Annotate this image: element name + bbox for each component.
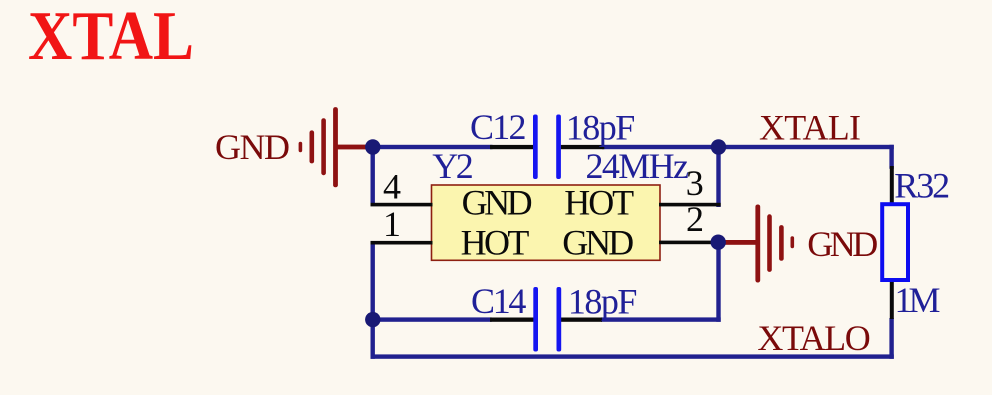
wire: C14 net, right segment	[601, 317, 721, 321]
pin 3 (HOT) wire	[659, 203, 721, 207]
svg-text:Y2: Y2	[432, 146, 474, 186]
junction dot at right top	[711, 139, 726, 154]
capacitor C12 pin stubs (black)	[490, 145, 534, 149]
resistor R32 bottom pin (black)	[890, 280, 894, 319]
resistor R32 body	[882, 204, 908, 280]
wire: vertical from left junction down to pin 4	[371, 147, 375, 206]
power ground symbol (right), net GND	[755, 205, 794, 283]
svg-text:XTALO: XTALO	[757, 318, 870, 358]
pin 2 (GND) wire	[659, 241, 721, 245]
svg-text:18pF: 18pF	[568, 281, 638, 321]
svg-text:18pF: 18pF	[566, 107, 636, 147]
resistor R32 top pin (black)	[890, 166, 894, 205]
capacitor C14 pin stubs (black)	[490, 318, 534, 322]
power ground symbol (left), net GND	[299, 107, 338, 187]
wire: C14 net, left segment	[373, 317, 492, 321]
junction dot at left top	[365, 139, 380, 154]
wire: XTALO bottom net	[371, 354, 894, 358]
svg-text:GND: GND	[562, 222, 634, 262]
capacitor C14 plates	[533, 287, 538, 352]
svg-text:1M: 1M	[895, 280, 941, 320]
wire: vertical from pin 2 junction down to C14 corner	[716, 242, 720, 322]
junction dot at pin 2	[711, 235, 726, 250]
crystal Y2 body	[432, 185, 661, 260]
wire: XTALO right corner up to R32 bottom pin	[889, 318, 893, 359]
svg-text:1: 1	[383, 204, 401, 244]
svg-text:XTALI: XTALI	[759, 108, 861, 148]
svg-text:C14: C14	[471, 281, 526, 321]
svg-text:C12: C12	[470, 107, 527, 147]
svg-text:GND: GND	[215, 127, 290, 167]
junction dot at bottom left	[365, 312, 380, 327]
capacitor C12 plates	[533, 115, 538, 180]
pin 4 (GND) wire	[371, 203, 433, 207]
svg-text:R32: R32	[894, 166, 950, 206]
wire: vertical from pin 1 down through junction to XTALO	[371, 243, 375, 359]
svg-text:24MHz: 24MHz	[586, 146, 690, 186]
wire: XTALI top net, right junction to corner	[719, 145, 894, 149]
svg-text:3: 3	[686, 163, 704, 203]
svg-text:XTAL: XTAL	[28, 0, 194, 75]
wire: XTALI top net, segment C12 to right junction	[602, 145, 720, 149]
wire: corner down to R32 top pin	[889, 145, 893, 169]
svg-text:GND: GND	[462, 182, 533, 222]
svg-text:HOT: HOT	[461, 222, 530, 262]
svg-text:GND: GND	[807, 224, 878, 264]
pin 1 (HOT) wire	[371, 241, 433, 245]
svg-text:HOT: HOT	[564, 182, 634, 222]
wire stub from pin 2 junction to right GND symbol (ground-colored)	[720, 240, 758, 245]
svg-text:2: 2	[686, 199, 704, 239]
svg-text:4: 4	[383, 166, 401, 206]
wire stub from left GND symbol to junction (ground-colored)	[336, 145, 373, 150]
wire: XTALI top net, left segment from junction to C12 pin	[371, 145, 493, 149]
wire: vertical from right junction down to pin 3	[716, 147, 720, 207]
